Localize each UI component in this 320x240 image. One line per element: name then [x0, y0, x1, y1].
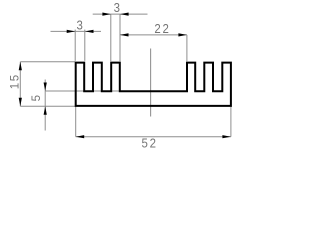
arrow 3-left right (left-pointing, outside) — [85, 30, 94, 33]
extension line base left corner down (52 left) — [75, 106, 77, 136]
arrow 3-top right (left-pointing, outside) — [120, 13, 129, 16]
arrow 22 left (left-pointing) — [120, 33, 129, 36]
extension line fin-top left (15 dim top) — [20, 61, 75, 63]
extension line fin3 right edge (3 top / 22 left) — [119, 14, 121, 61]
extension line base-bottom left (15/5 dim bottom) — [20, 105, 75, 107]
dimension line 15 — [19, 62, 21, 107]
arrow 15 bottom (down) — [19, 98, 22, 107]
arrow 3-top left (right-pointing, outside) — [102, 13, 111, 16]
centerline vertical axis — [150, 49, 152, 117]
dimension line 22 — [120, 34, 187, 36]
svg-text:3: 3 — [77, 18, 85, 33]
svg-text:52: 52 — [141, 136, 157, 151]
extension line fin1 left edge (3 left) — [74, 30, 76, 61]
arrow 5 top (down, outside) — [44, 83, 47, 92]
svg-text:15: 15 — [10, 73, 22, 89]
arrow 22 right (right-pointing) — [178, 33, 187, 36]
dimension line 52 — [76, 136, 231, 138]
arrow 52 right (right-pointing) — [222, 135, 231, 138]
dimension line 5 — [44, 80, 46, 131]
arrow 15 top (up) — [19, 62, 22, 71]
extension line fin A left edge (22 right) — [186, 35, 188, 61]
extension line base right corner down (52 right) — [230, 106, 232, 136]
svg-text:5: 5 — [31, 93, 43, 101]
svg-text:3: 3 — [114, 0, 122, 15]
heatsink profile outline — [76, 63, 231, 106]
arrow 3-left left (right-pointing, outside) — [67, 30, 76, 33]
svg-text:22: 22 — [154, 22, 170, 37]
extension line fin1 right edge (3 left) — [84, 30, 86, 61]
arrow 52 left (left-pointing) — [76, 135, 85, 138]
dimension line 3 (top, fin3 width) — [93, 13, 148, 15]
arrow 5 bottom (up, outside) — [44, 106, 47, 115]
extension line fin3 left edge (3 top) — [110, 14, 112, 61]
dimension line 3 (left, fin1 width) — [51, 30, 102, 32]
extension line base-top (5 dim top) — [45, 90, 120, 92]
